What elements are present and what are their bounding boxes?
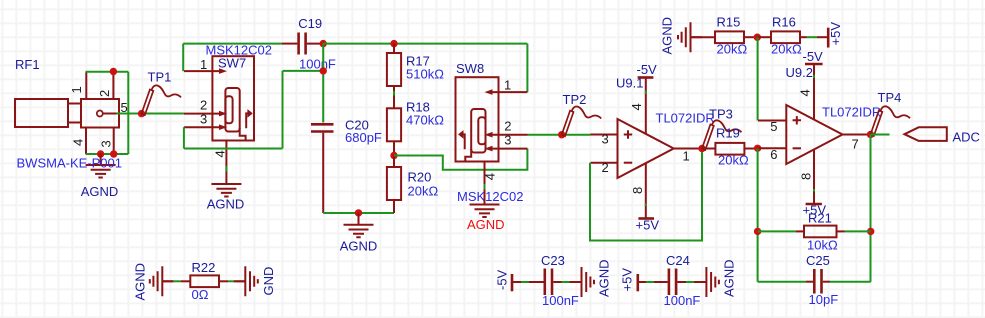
svg-text:510kΩ: 510kΩ [406, 67, 444, 82]
U9.2 pin 7 [843, 134, 871, 136]
wire C24 right [686, 281, 694, 283]
wire SW7 pin3 loop bottom [184, 148, 283, 150]
wire RF1 pin5 to SW7 [117, 113, 184, 115]
test point TP1 [142, 85, 182, 115]
svg-text:TL072IDR: TL072IDR [656, 111, 715, 126]
R17 lead green segment [393, 91, 395, 96]
wire R22 right [228, 280, 236, 282]
svg-text:8: 8 [630, 187, 645, 194]
wire top rail C19 to SW8 [323, 43, 527, 45]
R16 lead to power [817, 36, 828, 38]
ground GND right of R22 [234, 266, 258, 296]
resistor R15 [690, 31, 757, 43]
SW7 pin 3 [184, 126, 221, 128]
capacitor C23 [529, 269, 562, 296]
svg-text:U9.2: U9.2 [786, 65, 813, 80]
ground AGND mid [344, 213, 374, 237]
svg-text:TP1: TP1 [148, 70, 172, 85]
svg-text:TP2: TP2 [563, 92, 587, 107]
svg-text:10kΩ: 10kΩ [807, 238, 838, 253]
svg-text:R15: R15 [717, 15, 741, 30]
op-amp U9.1 [618, 119, 674, 178]
capacitor C19 [282, 33, 323, 55]
svg-text:3: 3 [504, 133, 511, 148]
svg-text:4: 4 [70, 139, 85, 146]
power +5V bar top right [827, 28, 830, 48]
capacitor C24 [654, 269, 686, 296]
svg-text:1: 1 [69, 86, 84, 93]
svg-text:4: 4 [798, 89, 813, 96]
SW7 pin 1 [184, 70, 221, 72]
junction C19 right [320, 40, 327, 47]
test point TP2 [562, 107, 602, 137]
svg-text:AGND: AGND [467, 217, 505, 232]
svg-text:-5V: -5V [495, 269, 510, 290]
wire top rail to C19 [183, 43, 282, 45]
svg-text:U9.1: U9.1 [616, 76, 643, 91]
junction R15 R16 [754, 34, 761, 41]
U9.1 pin 1 [674, 148, 702, 150]
wire R21 right [845, 230, 871, 232]
wire R22 left [173, 280, 181, 282]
SW8 pin 2 [490, 134, 528, 136]
svg-text:3: 3 [200, 112, 207, 127]
svg-text:4: 4 [629, 103, 644, 110]
R22 right lead [236, 280, 245, 282]
U9.1 pin 8 [645, 163, 647, 218]
switch SW8 body [456, 77, 499, 161]
U9.2 pin 5 [758, 120, 786, 122]
port ADC [905, 127, 947, 141]
junction R21 left [754, 228, 761, 235]
test point TP3 [702, 120, 742, 150]
svg-text:SW7: SW7 [218, 56, 246, 71]
RF1 pin 1 [85, 72, 87, 99]
junction U9.1 output [698, 145, 705, 152]
svg-text:AGND: AGND [660, 17, 675, 55]
svg-text:8: 8 [799, 173, 814, 180]
C23 left lead [512, 281, 521, 283]
wire C24 left [646, 281, 654, 283]
wire C25 right [830, 281, 871, 283]
svg-text:BWSMA-KE-P001: BWSMA-KE-P001 [17, 156, 122, 171]
power -5V bar U9.1 [638, 76, 654, 79]
junction RF1 pin3 bottom [110, 150, 117, 157]
U9.2 pin 4 green segment [813, 75, 815, 78]
ground AGND right of C24 [695, 267, 719, 297]
power -5V bar U9.2 [805, 63, 823, 66]
junction TP1 [138, 110, 145, 117]
svg-text:C19: C19 [298, 16, 322, 31]
svg-text:2: 2 [97, 90, 112, 97]
svg-text:AGND: AGND [81, 184, 119, 199]
svg-text:20kΩ: 20kΩ [718, 153, 749, 168]
svg-text:TL072IDR: TL072IDR [822, 105, 881, 120]
svg-text:R19: R19 [716, 126, 740, 141]
svg-text:20kΩ: 20kΩ [717, 42, 748, 57]
SW7 pin 4 green segment [225, 166, 227, 172]
RF1 pin 5 [103, 113, 117, 115]
junction R17 top [390, 40, 397, 47]
resistor R19 [702, 143, 758, 155]
RF1 pin 2 [112, 72, 114, 99]
wire SW8 pin2 to U9.1 [528, 134, 591, 136]
svg-text:3: 3 [99, 140, 114, 147]
test point TP4 [871, 106, 911, 136]
svg-text:+5V: +5V [828, 22, 843, 46]
svg-text:AGND: AGND [340, 239, 378, 254]
wire SW7 pin1 loop vertical [182, 44, 184, 72]
wire R21 left [758, 230, 796, 232]
U9.1 pin 3 [591, 134, 618, 136]
SW8 pin 4 green segment [484, 184, 486, 190]
svg-text:10pF: 10pF [809, 292, 839, 307]
svg-text:SW8: SW8 [456, 61, 484, 76]
wire U9.2 feedback left vertical [757, 148, 759, 281]
connector RF1 body [15, 99, 119, 128]
svg-text:R16: R16 [772, 15, 796, 30]
ground AGND under SW7 [211, 173, 241, 197]
svg-text:20kΩ: 20kΩ [408, 184, 439, 199]
op-amp U9.2 [786, 105, 842, 164]
power +5V bar C24 [636, 274, 639, 291]
junction TP2 [558, 131, 565, 138]
capacitor C20 [311, 124, 334, 213]
svg-text:C25: C25 [806, 253, 830, 268]
ground AGND under RF1 [86, 154, 116, 178]
junction bottom rail gnd [355, 209, 362, 216]
svg-text:R22: R22 [192, 260, 216, 275]
wire U9.2 feedback right vertical [870, 135, 872, 282]
SW7 pin 4 [225, 141, 227, 173]
svg-text:AGND: AGND [207, 197, 245, 212]
svg-text:AGND: AGND [722, 259, 737, 297]
SW8 pin 1 [490, 91, 527, 93]
svg-text:1: 1 [504, 78, 511, 93]
wire SW7 pin3 loop right vertical [282, 71, 284, 149]
wire C23 right [562, 281, 570, 283]
C24 left lead [638, 281, 646, 283]
resistor R20 [387, 156, 401, 214]
svg-text:-5V: -5V [803, 49, 824, 64]
svg-text:AGND: AGND [597, 259, 612, 297]
wire C25 left [758, 281, 806, 283]
wire R15 R16 junction down to U9.2 pin5 [757, 37, 759, 120]
wire bottom rail [323, 212, 394, 214]
C24 right lead [694, 281, 706, 283]
svg-text:20kΩ: 20kΩ [771, 42, 802, 57]
R22 left lead [162, 280, 173, 282]
U9.1 pin 8 green segment [645, 204, 647, 207]
svg-text:MSK12C02: MSK12C02 [457, 189, 523, 204]
svg-text:100nF: 100nF [542, 293, 579, 308]
svg-text:100nF: 100nF [664, 293, 701, 308]
svg-text:TP3: TP3 [709, 107, 733, 122]
ground AGND top right [678, 22, 702, 52]
C23 right lead [570, 281, 582, 283]
junction U9.2 pin6 [754, 145, 761, 152]
wire RF1 shield right [127, 72, 129, 154]
svg-text:ADC: ADC [953, 130, 980, 145]
svg-text:AGND: AGND [133, 263, 148, 301]
resistor R18 [387, 108, 401, 155]
svg-text:1: 1 [683, 149, 690, 164]
svg-text:0Ω: 0Ω [192, 287, 209, 302]
svg-text:TP4: TP4 [878, 90, 902, 105]
junction R18 R20 [390, 152, 397, 159]
resistor R17 [387, 44, 401, 109]
svg-text:470kΩ: 470kΩ [406, 113, 444, 128]
junction U9.2 output [867, 131, 874, 138]
power -5V bar C23 [511, 274, 514, 291]
ground AGND right of C23 [570, 267, 594, 297]
power +5V bar U9.2 [806, 203, 822, 206]
wire RF1 shield bottom [86, 153, 129, 155]
svg-text:5: 5 [770, 119, 777, 134]
svg-text:C23: C23 [541, 253, 565, 268]
svg-text:R21: R21 [808, 211, 832, 226]
svg-text:100nF: 100nF [299, 57, 336, 72]
wire loop to C20 node [283, 70, 324, 72]
svg-text:680pF: 680pF [345, 130, 382, 145]
wire RF1 shield top [86, 71, 129, 73]
resistor R21 [796, 226, 845, 238]
junction R21 right [867, 228, 874, 235]
capacitor C25 [806, 269, 830, 294]
wire C23 left [521, 281, 529, 283]
svg-text:7: 7 [852, 137, 859, 152]
SW8 pin 3 [490, 148, 528, 150]
wire top rail down to SW8 pin1 [526, 44, 528, 93]
U9.2 pin 6 [758, 147, 787, 149]
R16 lead green segment [807, 36, 818, 38]
resistor R16 [757, 31, 806, 43]
SW8 pin 4 [484, 162, 486, 194]
svg-text:R20: R20 [408, 170, 432, 185]
svg-text:2: 2 [200, 97, 207, 112]
wire output to ADC [871, 134, 890, 136]
wire R18 junction to SW8 pin3 [394, 149, 527, 170]
svg-text:4: 4 [483, 173, 498, 180]
junction RF1 gnd [97, 150, 104, 157]
svg-text:4: 4 [212, 150, 227, 157]
U9.2 pin 4 [813, 64, 815, 120]
U9.1 pin 2 [591, 162, 618, 164]
U9.2 pin 8 [813, 149, 815, 204]
wire U9.1 feedback [590, 149, 702, 241]
resistor R22 [181, 275, 228, 287]
svg-text:3: 3 [602, 132, 609, 147]
wire SW7 pin3 down [183, 127, 185, 148]
power +5V bar U9.1 [638, 217, 654, 220]
svg-text:GND: GND [261, 267, 276, 296]
U9.1 pin 4 [645, 78, 647, 134]
svg-text:+5V: +5V [620, 268, 635, 292]
svg-text:C24: C24 [666, 253, 690, 268]
U9.2 pin 8 green segment [813, 189, 815, 192]
svg-text:2: 2 [504, 119, 511, 134]
SW7 pin 2 [184, 113, 221, 115]
svg-text:6: 6 [770, 147, 777, 162]
svg-text:2: 2 [602, 160, 609, 175]
RF1 pin 4 [85, 128, 87, 155]
ground AGND left of R22 [150, 266, 174, 296]
wire C19 node down [322, 44, 324, 123]
switch SW7 body [212, 56, 254, 140]
RF1 pin 3 [113, 128, 115, 155]
junction RF1 pin2 top [110, 68, 117, 75]
junction C20 branch [320, 67, 327, 74]
ground under SW8 [470, 193, 500, 217]
svg-text:1: 1 [200, 57, 207, 72]
svg-text:+5V: +5V [636, 218, 660, 233]
U9.1 pin 4 green segment [645, 91, 647, 95]
svg-text:RF1: RF1 [15, 57, 40, 72]
